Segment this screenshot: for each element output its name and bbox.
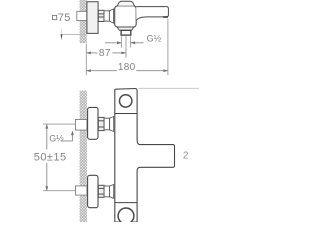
- cylinder union top view: [104, 11, 109, 21]
- wall (hatched) top view: [80, 0, 87, 43]
- dim G1/2 extension lines (top view): [121, 36, 123, 47]
- main block top view: [115, 6, 137, 27]
- dim G1/2 leader lines + arrows: [105, 42, 144, 44]
- body upper separation line: [115, 113, 137, 115]
- dim 50+-15 vertical line: [46, 124, 48, 191]
- svg-text:87: 87: [99, 48, 111, 59]
- label square 75: [53, 15, 57, 19]
- dim 180 extension line right: [167, 19, 169, 76]
- outlet trapezoid below block: [117, 27, 134, 30]
- body lower separation line: [115, 202, 137, 204]
- bottom port circle: [118, 208, 134, 224]
- top port circle: [120, 95, 132, 107]
- bottom flange: [88, 175, 98, 207]
- aerator mark under spout tip: [163, 16, 168, 18]
- svg-text:G½: G½: [147, 33, 162, 43]
- ribbed nut top view: [98, 10, 104, 21]
- svg-text:50±15: 50±15: [34, 151, 67, 163]
- dim 87 line + arrows: [86, 52, 126, 54]
- wall (hatched) side view: [80, 91, 87, 223]
- dim 50+-15 extension lines: [43, 123, 75, 125]
- right extension line (cropped dim): [139, 87, 200, 89]
- cone flare top view: [109, 9, 113, 23]
- top cylinder: [104, 118, 110, 130]
- svg-text:2: 2: [183, 150, 189, 161]
- body side view: [115, 89, 175, 223]
- outlet nipple G1/2: [121, 30, 131, 35]
- svg-text:G½: G½: [49, 133, 64, 143]
- svg-text:75: 75: [58, 12, 71, 24]
- svg-text:180: 180: [118, 62, 136, 73]
- concealed union square behind wall: [77, 11, 87, 20]
- G1/2 leader side view: [61, 132, 73, 141]
- top ribbed nut: [98, 117, 104, 130]
- bottom supply pipe in wall: [76, 186, 87, 195]
- top cone flare: [110, 117, 114, 132]
- bottom cone flare: [110, 185, 114, 199]
- temperature cap top view: [117, 1, 134, 6]
- dim 87 extension lines: [125, 36, 127, 57]
- escutcheon plate top view: [87, 2, 98, 34]
- spout top view: [136, 7, 168, 21]
- bottom ribbed nut: [98, 185, 104, 197]
- dim 180 line + arrows: [86, 70, 168, 72]
- top flange: [88, 107, 98, 139]
- leader from plate to label 75: [62, 34, 87, 36]
- bottom cylinder: [104, 186, 110, 197]
- top supply pipe in wall: [76, 120, 87, 131]
